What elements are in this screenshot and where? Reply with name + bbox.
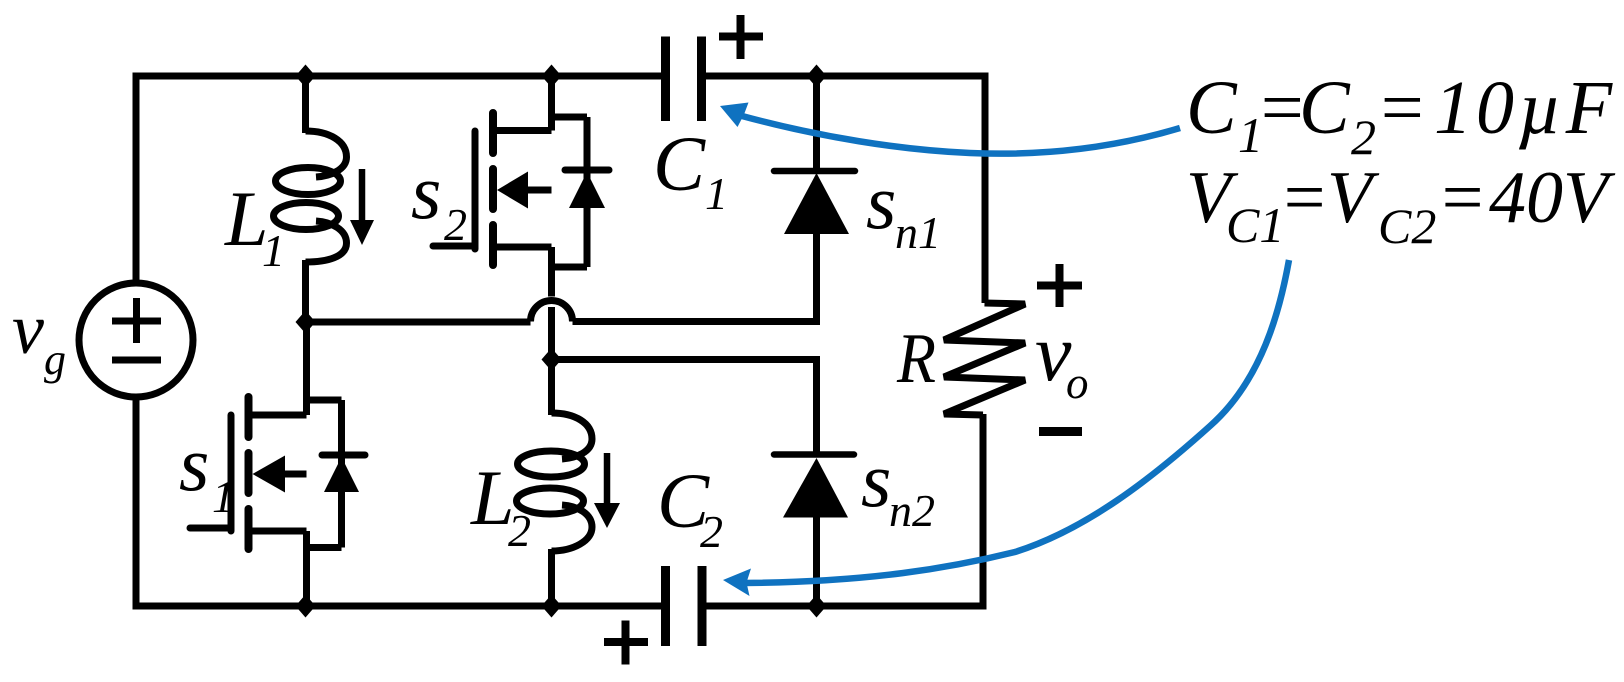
svg-text:s: s: [179, 420, 209, 507]
label s2: [411, 148, 467, 250]
svg-text:o: o: [1066, 358, 1089, 408]
wire right rail bottom (from resistor R): [980, 414, 987, 610]
svg-text:C2: C2: [1378, 198, 1436, 254]
node mid-left: [296, 311, 316, 334]
wire from node A to hop (mid-left horizontal): [306, 319, 531, 326]
svg-text:V: V: [1327, 157, 1380, 239]
s2 body diode triangle: [569, 172, 605, 208]
node bottom-L2: [542, 595, 562, 618]
annotation text line 1: [1186, 66, 1616, 165]
wire s2 source down through hop to node B: [548, 307, 555, 360]
svg-text:C: C: [653, 120, 706, 207]
label L1: [224, 175, 285, 276]
diode sn1: [573, 76, 856, 322]
s1 body arrow: [253, 456, 286, 493]
node mid-L2: [542, 348, 562, 371]
svg-text:v: v: [12, 289, 44, 369]
node bottom-sn2: [807, 595, 827, 618]
current arrow for L1: [350, 169, 374, 245]
label vg: [12, 289, 66, 384]
svg-text:s: s: [866, 158, 896, 245]
node bottom-s1: [296, 595, 316, 618]
svg-text:C: C: [1299, 66, 1351, 150]
svg-text:=: =: [1437, 157, 1487, 239]
transistor s2 (MOSFET): [433, 76, 609, 297]
label s1: [179, 420, 235, 522]
svg-text:=: =: [1376, 66, 1427, 150]
svg-text:2: 2: [508, 505, 531, 556]
svg-text:=: =: [1279, 157, 1329, 239]
wire top rail right of C1: [701, 73, 985, 80]
s1 body diode triangle: [324, 457, 359, 492]
svg-text:C: C: [1186, 66, 1238, 150]
capacitor C1: [666, 37, 702, 122]
node top-s2: [542, 65, 562, 88]
svg-text:s: s: [411, 148, 441, 235]
voltage source vg: [79, 283, 193, 397]
svg-text:1: 1: [212, 471, 235, 522]
minus sign of vo: [1039, 427, 1082, 436]
label sn2: [861, 436, 935, 536]
svg-text:g: g: [44, 335, 66, 384]
plus sign of vo: [1037, 264, 1082, 307]
wire bottom rail right of C2: [702, 603, 984, 610]
wire left rail bottom (vg to bottom rail): [133, 397, 140, 606]
svg-text:1: 1: [262, 225, 285, 276]
node top-sn1: [807, 65, 827, 88]
current arrow for L2: [594, 453, 620, 528]
resistor R: [944, 303, 1025, 415]
wire hop over vertical: [531, 301, 573, 322]
plus sign of C2: [604, 621, 648, 665]
svg-text:C1: C1: [1226, 197, 1284, 253]
label C1: [653, 120, 728, 219]
label vo: [1035, 307, 1089, 408]
svg-text:10µF: 10µF: [1434, 66, 1616, 150]
label sn1: [866, 158, 941, 258]
inductor L1: [274, 76, 347, 322]
svg-text:2: 2: [700, 506, 723, 557]
wire left rail top (vg to top rail): [133, 76, 140, 283]
s2 body arrow: [497, 172, 528, 209]
blue annotation arrow to C2: [744, 260, 1289, 583]
diode sn2: [552, 360, 855, 607]
annotation text line 2: [1186, 157, 1616, 254]
blue annotation arrow to C1: [742, 116, 1180, 154]
node junction diamonds: [296, 65, 827, 618]
wire bottom rail left of C2: [133, 603, 667, 610]
svg-text:40V: 40V: [1489, 157, 1616, 239]
transistor s1 (MOSFET): [190, 322, 365, 606]
capacitor C2: [666, 566, 703, 646]
plus sign of C1: [719, 15, 763, 59]
node top-L1: [296, 65, 316, 88]
inductor L2: [517, 360, 593, 607]
label C2: [657, 457, 723, 557]
svg-text:n1: n1: [895, 207, 941, 258]
svg-text:2: 2: [444, 199, 467, 250]
svg-text:s: s: [861, 436, 891, 523]
svg-text:n2: n2: [889, 485, 935, 536]
wire right rail top (to resistor R): [982, 73, 989, 304]
label L2: [470, 454, 531, 556]
svg-text:1: 1: [705, 168, 728, 219]
wire top rail left of C1: [133, 73, 667, 80]
svg-text:R: R: [896, 320, 936, 398]
